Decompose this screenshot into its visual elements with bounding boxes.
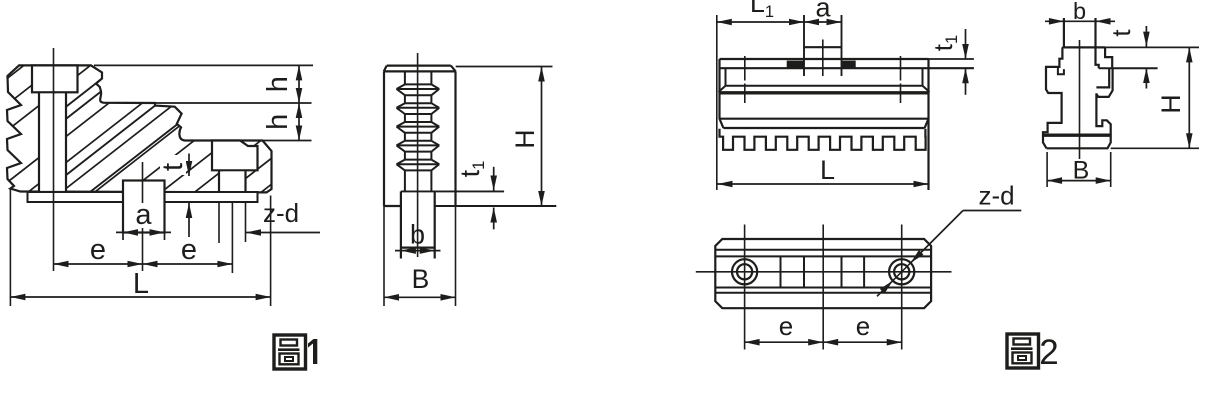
svg-text:e: e: [779, 311, 793, 341]
svg-text:L1: L1: [750, 0, 774, 21]
svg-text:z-d: z-d: [978, 181, 1014, 211]
svg-text:b: b: [1073, 0, 1086, 24]
svg-text:a: a: [815, 0, 831, 23]
svg-text:B: B: [1073, 157, 1090, 185]
svg-text:h: h: [262, 114, 294, 130]
svg-text:a: a: [135, 199, 152, 231]
svg-text:t: t: [1106, 29, 1136, 37]
svg-text:h: h: [262, 76, 294, 92]
svg-text:e: e: [856, 311, 870, 341]
svg-text:b: b: [410, 220, 425, 250]
svg-text:e: e: [181, 234, 197, 266]
svg-text:H: H: [510, 129, 540, 148]
svg-text:B: B: [412, 264, 430, 294]
svg-text:L: L: [133, 268, 149, 300]
svg-text:z-d: z-d: [263, 198, 299, 228]
svg-text:e: e: [90, 234, 106, 266]
svg-text:L: L: [820, 155, 835, 185]
svg-text:2: 2: [1039, 333, 1058, 372]
svg-text:t: t: [157, 163, 189, 171]
svg-text:H: H: [1156, 94, 1186, 114]
